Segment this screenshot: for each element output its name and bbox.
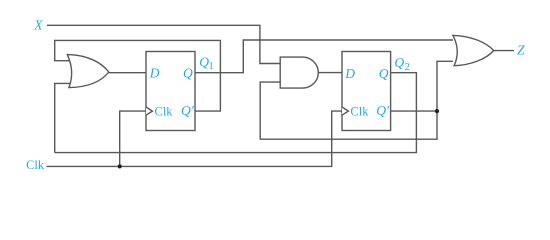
svg-text:X: X	[33, 18, 43, 33]
svg-text:Z: Z	[517, 43, 525, 58]
svg-text:Clk: Clk	[155, 105, 174, 119]
svg-text:2: 2	[405, 62, 410, 73]
svg-text:Q: Q	[394, 55, 404, 70]
svg-text:Clk: Clk	[26, 158, 45, 172]
svg-text:Q: Q	[379, 66, 389, 81]
svg-text:Clk: Clk	[350, 105, 369, 119]
svg-text:D: D	[344, 66, 355, 81]
svg-text:Q: Q	[183, 66, 193, 81]
svg-text:Q′: Q′	[376, 103, 390, 118]
svg-text:Q′: Q′	[181, 103, 195, 118]
svg-text:D: D	[149, 66, 160, 81]
svg-text:1: 1	[209, 61, 214, 72]
